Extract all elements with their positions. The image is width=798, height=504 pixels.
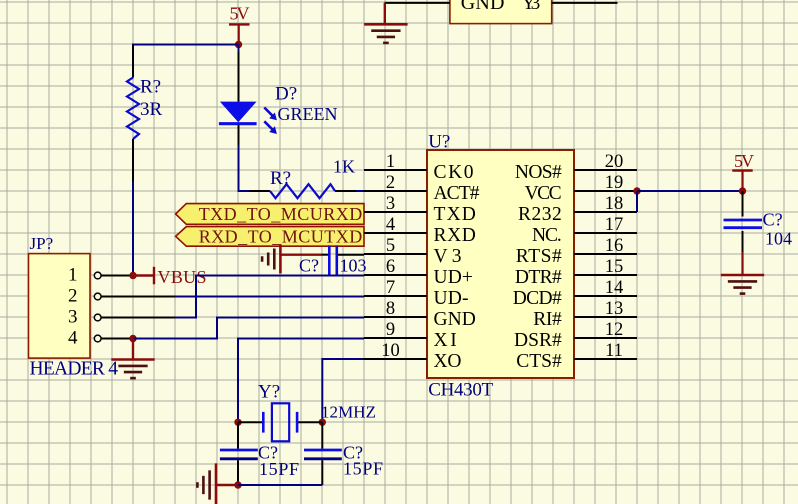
- svg-text:15: 15: [605, 257, 624, 277]
- svg-text:Y?: Y?: [258, 382, 280, 403]
- svg-text:TXD: TXD: [434, 204, 476, 225]
- svg-text:GREEN: GREEN: [278, 104, 338, 124]
- junction (crystal ground node): [234, 481, 241, 488]
- junction (crystal left): [234, 419, 241, 426]
- svg-text:4: 4: [68, 328, 78, 349]
- svg-text:1: 1: [386, 152, 395, 172]
- svg-text:19: 19: [605, 173, 624, 193]
- svg-text:R232: R232: [518, 204, 562, 225]
- wire (R1 bottom to JP pin1 junction): [132, 181, 134, 276]
- svg-text:Y3: Y3: [522, 0, 541, 14]
- svg-text:V3: V3: [434, 246, 462, 267]
- resistor R2 (R? 1K): [249, 157, 364, 199]
- svg-text:TXD_TO_MCURXD: TXD_TO_MCURXD: [199, 204, 363, 224]
- svg-text:GND: GND: [461, 0, 505, 14]
- resistor R1 (R? 3R): [127, 45, 163, 182]
- svg-text:17: 17: [605, 215, 624, 235]
- svg-text:DSR#: DSR#: [514, 330, 562, 351]
- svg-text:NC.: NC.: [532, 225, 562, 246]
- op-amp U1 (U? CH430T IC body and pins): [364, 132, 637, 401]
- svg-text:2: 2: [68, 286, 78, 307]
- capacitor C3 (C? 103): [299, 245, 367, 275]
- svg-text:UD-: UD-: [434, 288, 469, 309]
- svg-text:U?: U?: [428, 132, 450, 153]
- capacitor C2 (C? 15PF right): [304, 422, 383, 485]
- junction (JP pin1): [129, 272, 136, 279]
- svg-text:C?: C?: [299, 256, 319, 276]
- power 5V (right): [732, 151, 754, 191]
- crystal Y1 (Y? 12MHZ): [238, 382, 376, 442]
- svg-text:8: 8: [386, 299, 395, 319]
- svg-text:2: 2: [386, 173, 395, 193]
- svg-text:15PF: 15PF: [343, 459, 383, 479]
- svg-text:RTS#: RTS#: [516, 246, 562, 267]
- wire (Y3 left pin to ground): [385, 3, 450, 24]
- svg-text:18: 18: [605, 194, 624, 214]
- svg-text:CK0: CK0: [434, 162, 474, 183]
- svg-text:16: 16: [605, 236, 624, 256]
- svg-text:XI: XI: [434, 330, 457, 351]
- wire (C1 to C2 bottoms): [238, 484, 322, 486]
- svg-text:DTR#: DTR#: [515, 267, 562, 288]
- ground (rotated, at C3): [262, 245, 321, 274]
- wire (JP pin4 to U1 GND): [133, 318, 364, 339]
- svg-text:UD+: UD+: [434, 267, 473, 288]
- wire (LED cathode to R2): [239, 145, 250, 191]
- wire (Y3 right pin stub): [552, 2, 618, 4]
- wire (VCC tie to pin 18): [636, 191, 638, 212]
- svg-text:JP?: JP?: [30, 234, 54, 253]
- svg-text:12MHZ: 12MHZ: [321, 402, 376, 421]
- svg-text:7: 7: [386, 278, 395, 298]
- svg-text:HEADER 4: HEADER 4: [30, 359, 119, 380]
- connector JP1 (JP? HEADER 4): [29, 234, 176, 380]
- svg-text:6: 6: [386, 257, 395, 277]
- svg-text:9: 9: [386, 320, 395, 340]
- svg-text:C?: C?: [763, 210, 783, 230]
- svg-text:103: 103: [340, 256, 367, 276]
- ground (below C4): [721, 275, 764, 294]
- svg-text:10: 10: [381, 341, 400, 361]
- svg-text:11: 11: [605, 341, 623, 361]
- svg-text:4: 4: [386, 215, 395, 235]
- ground (below Y3 GND pin): [364, 24, 407, 43]
- junction (5V rail): [235, 41, 242, 48]
- svg-text:12: 12: [605, 320, 624, 340]
- svg-text:RXD: RXD: [434, 225, 476, 246]
- svg-text:VCC: VCC: [525, 183, 562, 204]
- svg-text:5: 5: [386, 236, 395, 256]
- svg-text:CTS#: CTS#: [516, 351, 562, 372]
- svg-text:20: 20: [605, 152, 624, 172]
- wire (XO to crystal): [322, 359, 364, 422]
- svg-text:DCD#: DCD#: [513, 288, 562, 309]
- port TXD_TO_MCURXD (net flag to pin 3): [176, 204, 364, 225]
- svg-text:104: 104: [765, 229, 792, 249]
- junction (JP pin4): [129, 335, 136, 342]
- svg-text:3: 3: [68, 307, 78, 328]
- capacitor C1 (C? 15PF left): [220, 422, 299, 485]
- svg-text:1: 1: [68, 265, 78, 286]
- diode D1 (LED D? GREEN): [219, 45, 338, 146]
- svg-text:1K: 1K: [333, 157, 355, 177]
- svg-text:15PF: 15PF: [259, 459, 299, 479]
- capacitor C4 (C? 104): [724, 191, 793, 275]
- ground (JP pin4): [111, 339, 154, 379]
- power 5V (top left): [229, 3, 250, 44]
- power port VBUS: [133, 267, 207, 287]
- svg-text:CH430T: CH430T: [428, 380, 493, 401]
- ground (rotated, crystal): [197, 463, 238, 504]
- junction (crystal right): [319, 419, 326, 426]
- svg-text:ACT#: ACT#: [434, 183, 480, 204]
- svg-text:RI#: RI#: [533, 309, 562, 330]
- wire (XI to crystal): [238, 339, 364, 423]
- svg-text:13: 13: [605, 299, 624, 319]
- svg-text:3R: 3R: [140, 99, 163, 120]
- svg-text:GND: GND: [434, 309, 476, 330]
- svg-text:VBUS: VBUS: [158, 267, 207, 287]
- svg-text:5V: 5V: [230, 3, 250, 23]
- wire (JP pin2 to U1 UD-): [175, 296, 364, 298]
- junction (pin 19 VCC tip): [633, 187, 640, 194]
- svg-text:NOS#: NOS#: [515, 162, 562, 183]
- svg-text:RXD_TO_MCUTXD: RXD_TO_MCUTXD: [199, 227, 363, 247]
- component Y3 (partial box at top): [450, 0, 552, 24]
- svg-text:14: 14: [605, 278, 624, 298]
- svg-text:D?: D?: [275, 84, 297, 105]
- svg-text:3: 3: [386, 194, 395, 214]
- wire (VCC to 5V): [637, 190, 743, 192]
- junction (5V / C4 node): [739, 187, 746, 194]
- wire (JP pin3 to U1 UD+): [175, 276, 364, 318]
- port RXD_TO_MCUTXD (net flag to pin 4): [176, 227, 364, 247]
- wire (5V rail to R1 column): [133, 45, 239, 58]
- svg-text:5V: 5V: [734, 151, 754, 171]
- svg-text:XO: XO: [434, 351, 462, 372]
- svg-text:R?: R?: [270, 168, 291, 189]
- svg-text:R?: R?: [140, 77, 161, 98]
